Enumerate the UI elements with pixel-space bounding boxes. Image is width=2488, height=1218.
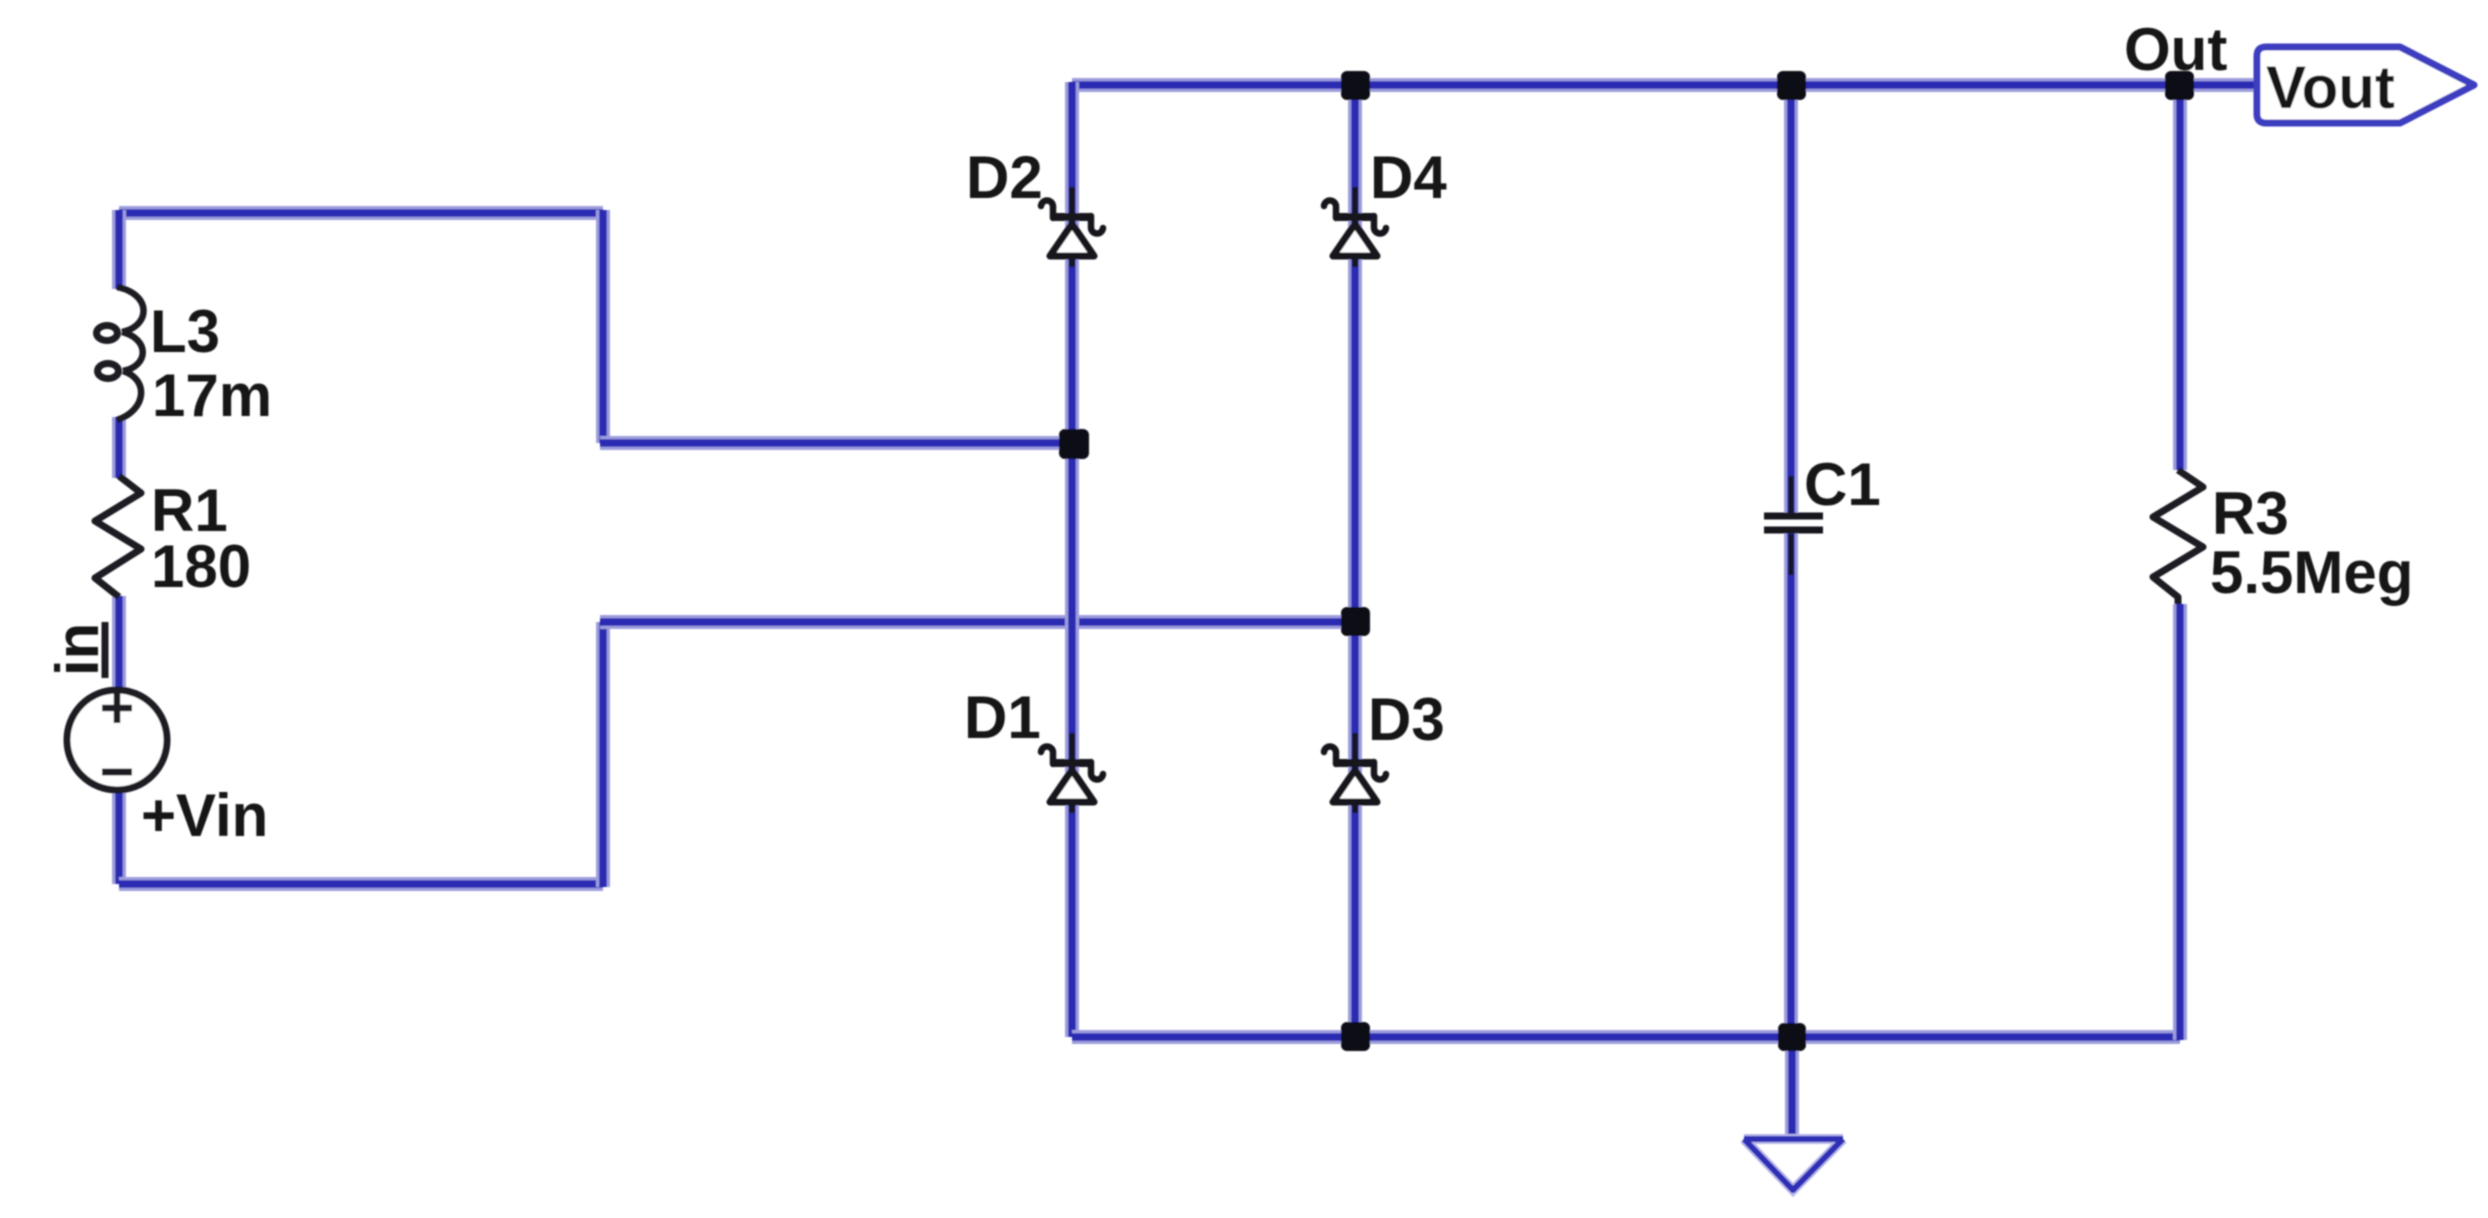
wire A to bridge mid-left node	[600, 436, 1073, 450]
wire right bridge vertical	[1348, 82, 1362, 1037]
junction bottom C1 ground	[1778, 1023, 1806, 1051]
svg-text:180: 180	[151, 533, 251, 600]
junction wire B node	[1341, 607, 1370, 636]
voltage source V1 circle	[67, 690, 167, 790]
svg-text:D4: D4	[1370, 144, 1447, 211]
wire C1 branch lower	[1784, 532, 1798, 1037]
wire R3 branch lower	[2173, 604, 2187, 1040]
diode D3	[1324, 733, 1386, 813]
wire B to bridge mid-right node	[600, 615, 1355, 629]
junction top Out	[2165, 71, 2194, 100]
wire left bridge vertical	[1065, 82, 1079, 1037]
resistor R1	[95, 476, 141, 597]
svg-text:C1: C1	[1804, 451, 1881, 518]
junction top C1	[1777, 71, 1806, 100]
junction wire A node	[1059, 429, 1089, 459]
wire R3 branch upper	[2173, 85, 2187, 470]
junction top D4	[1341, 71, 1370, 100]
wire left rail between R1 and source	[112, 596, 126, 692]
diode D2	[1041, 187, 1103, 267]
wire left rail between L3 and R1	[112, 417, 126, 478]
inductor L3	[97, 287, 144, 420]
svg-text:D1: D1	[964, 684, 1041, 751]
wire ground stub	[1785, 1037, 1799, 1140]
svg-text:5.5Meg: 5.5Meg	[2210, 539, 2413, 606]
svg-text:in: in	[44, 623, 111, 676]
diode D1	[1041, 733, 1103, 813]
ground	[1744, 1139, 1843, 1190]
svg-text:D3: D3	[1368, 686, 1445, 753]
junction bottom D3	[1341, 1022, 1370, 1051]
wire bottom-left horizontal	[119, 877, 603, 891]
port Vout	[2257, 47, 2474, 123]
wire C1 branch upper	[1784, 85, 1798, 515]
wire left step vertical	[596, 210, 610, 443]
svg-text:L3: L3	[150, 298, 220, 365]
svg-text:R3: R3	[2212, 480, 2289, 547]
svg-text:Vout: Vout	[2266, 54, 2395, 121]
capacitor C1	[1764, 476, 1823, 575]
resistor R3	[2153, 470, 2203, 604]
wire bottom rail	[1072, 1030, 2180, 1044]
wire top-left horizontal	[119, 206, 603, 220]
wire left rail above L3	[112, 210, 126, 289]
net label in (rotated)	[44, 622, 111, 678]
svg-text:+Vin: +Vin	[141, 782, 268, 849]
diode D4	[1324, 187, 1386, 267]
svg-text:D2: D2	[966, 144, 1043, 211]
wire left step vertical lower	[596, 622, 610, 887]
wire left rail below source	[112, 789, 126, 884]
wire top rail	[1072, 78, 2257, 92]
svg-text:17m: 17m	[152, 362, 272, 429]
